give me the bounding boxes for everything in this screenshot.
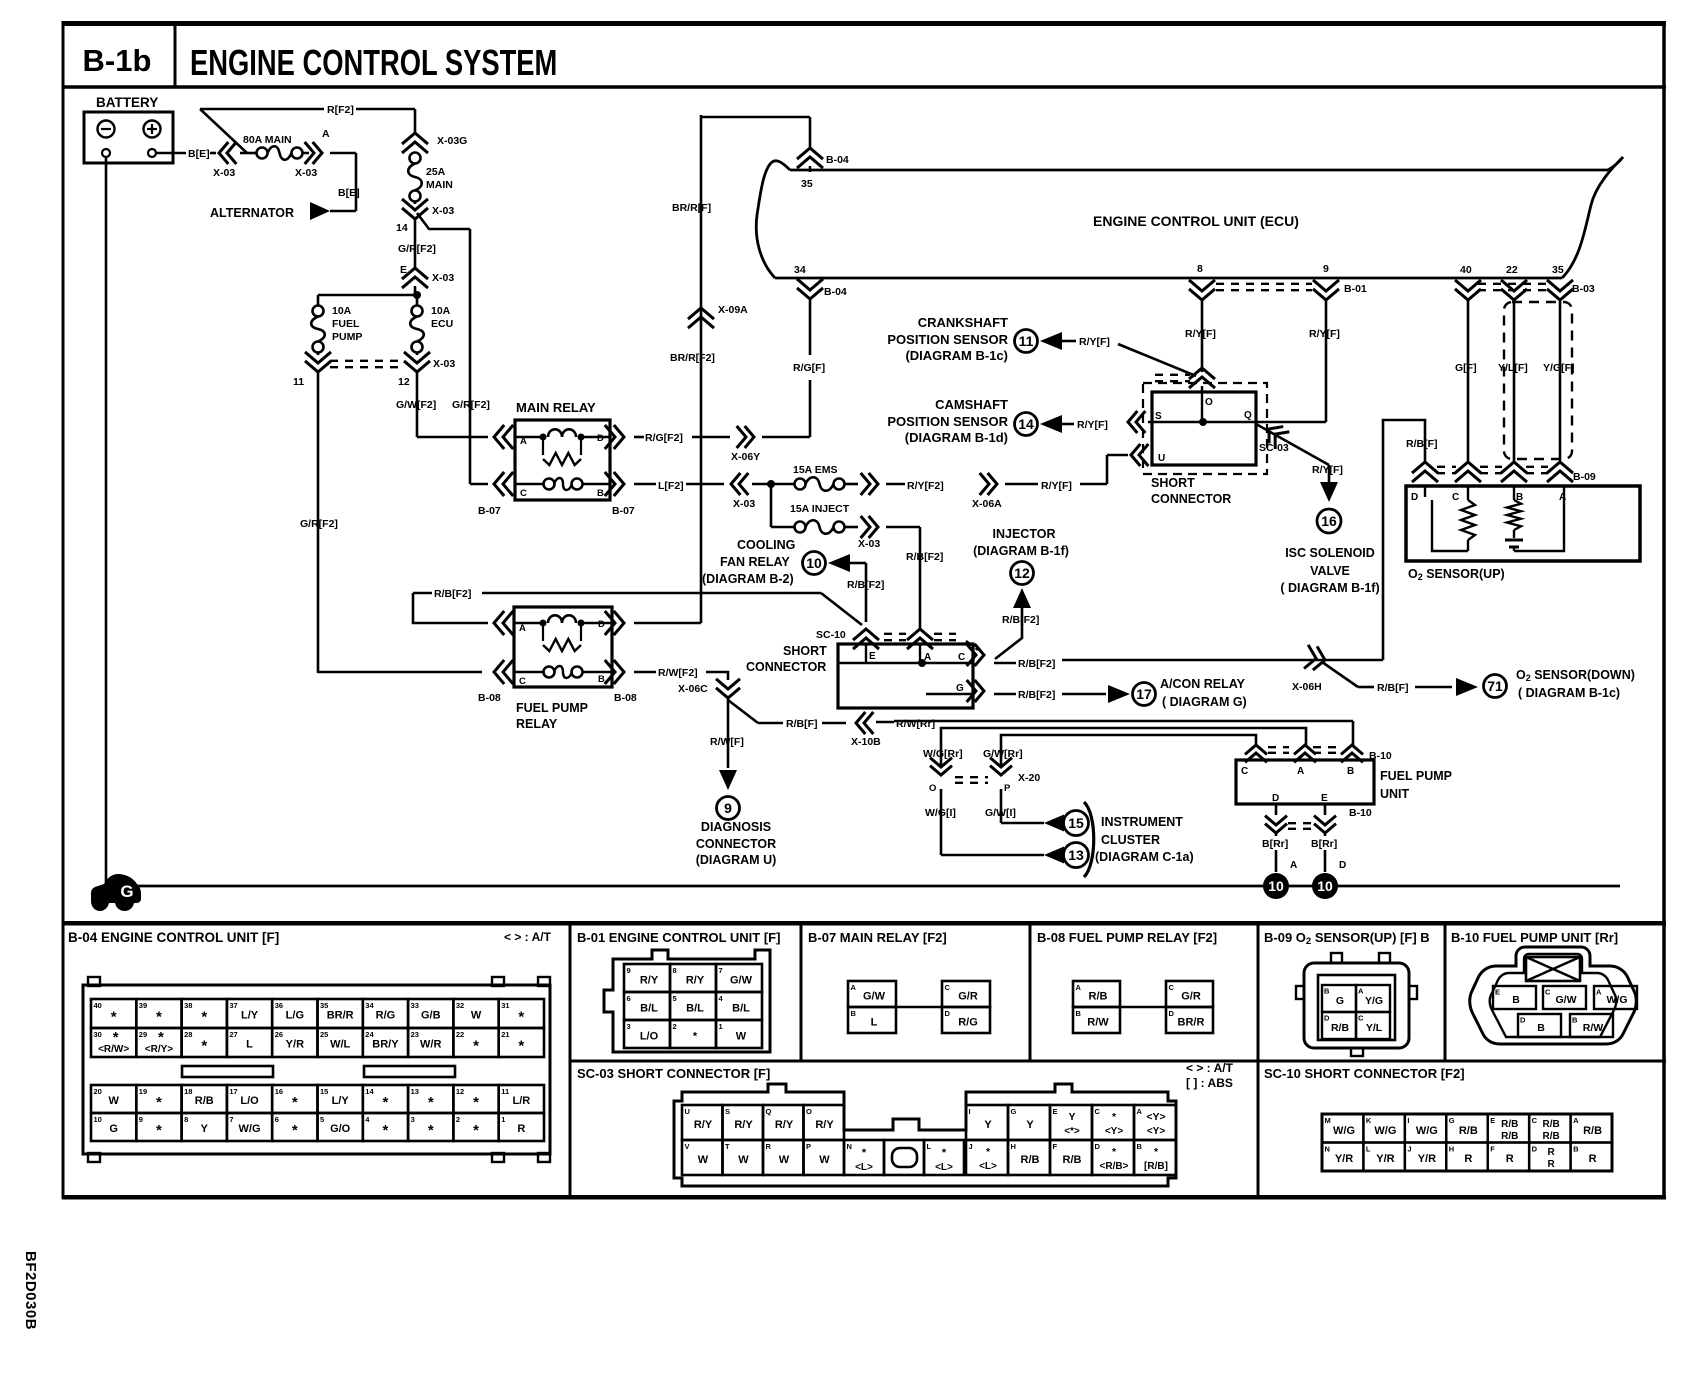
svg-text:37: 37 [229,1001,237,1010]
svg-text:ALTERNATOR: ALTERNATOR [210,206,294,220]
svg-text:F: F [1053,1142,1058,1151]
svg-text:W: W [819,1154,830,1166]
svg-text:R/G: R/G [376,1010,396,1022]
svg-text:*: * [111,1009,117,1026]
svg-text:R/Y: R/Y [640,975,659,987]
svg-text:R/Y: R/Y [775,1119,794,1131]
svg-text:J: J [1407,1145,1411,1154]
svg-text:B: B [1573,1145,1579,1154]
svg-text:Y: Y [1068,1111,1075,1123]
svg-text:R/B: R/B [1543,1119,1560,1130]
svg-text:U: U [1158,453,1165,464]
svg-text:W: W [108,1095,119,1107]
svg-text:A: A [1573,1116,1579,1125]
svg-text:(DIAGRAM B-1c): (DIAGRAM B-1c) [905,348,1008,363]
svg-text:UNIT: UNIT [1380,787,1410,801]
svg-text:T: T [725,1142,730,1151]
svg-text:*: * [383,1122,389,1139]
svg-text:11: 11 [1019,333,1034,349]
svg-text:29: 29 [139,1030,147,1039]
svg-text:14: 14 [365,1087,374,1096]
svg-text:34: 34 [794,264,806,276]
svg-text:POSITION SENSOR: POSITION SENSOR [887,332,1008,347]
svg-text:A: A [1076,983,1082,992]
svg-text:K: K [1366,1116,1372,1125]
svg-text:25: 25 [320,1030,328,1039]
svg-text:RELAY: RELAY [516,717,558,731]
svg-text:W/G: W/G [1607,994,1628,1006]
svg-text:10: 10 [94,1115,102,1124]
svg-text:A: A [1290,860,1297,871]
svg-text:G: G [109,1123,118,1135]
svg-text:INJECTOR: INJECTOR [993,527,1056,541]
svg-text:(DIAGRAM B-1d): (DIAGRAM B-1d) [905,430,1008,445]
svg-text:J: J [969,1142,973,1151]
svg-text:B: B [851,1009,857,1018]
svg-text:Y/G[F]: Y/G[F] [1543,362,1575,374]
svg-text:Y/G: Y/G [1365,995,1383,1007]
svg-text:<L>: <L> [935,1162,953,1173]
svg-text:H: H [1449,1145,1454,1154]
svg-text:CRANKSHAFT: CRANKSHAFT [918,315,1008,330]
svg-text:*: * [693,1031,698,1043]
svg-text:D: D [1169,1009,1175,1018]
svg-text:(DIAGRAM U): (DIAGRAM U) [696,853,777,867]
svg-text:L: L [246,1039,253,1051]
svg-text:B[E]: B[E] [188,148,210,160]
svg-text:<L>: <L> [979,1161,997,1172]
svg-text:Q: Q [1244,410,1252,421]
svg-text:<Y>: <Y> [1147,1126,1166,1137]
svg-text:W/G: W/G [1416,1125,1438,1137]
svg-text:D: D [1339,860,1346,871]
svg-text:22: 22 [456,1030,464,1039]
svg-text:Y/L: Y/L [1366,1022,1383,1034]
svg-text:10: 10 [1317,878,1333,894]
svg-text:R/Y[F]: R/Y[F] [1041,480,1072,492]
svg-text:R/B[F2]: R/B[F2] [1018,689,1055,701]
svg-text:W: W [779,1154,790,1166]
svg-text:F: F [1490,1145,1495,1154]
svg-text:R/B: R/B [1089,991,1108,1003]
svg-text:P: P [1004,783,1011,794]
svg-text:R/B[F]: R/B[F] [786,718,818,730]
svg-text:B-07: B-07 [478,505,501,517]
svg-text:X-03: X-03 [213,167,235,179]
svg-text:10: 10 [1268,878,1284,894]
svg-text:R/B[F2]: R/B[F2] [1002,614,1039,626]
svg-text:G[F]: G[F] [1455,362,1477,374]
svg-text:VALVE: VALVE [1310,564,1350,578]
svg-text:R/G: R/G [958,1017,978,1029]
svg-text:A: A [1297,766,1304,777]
svg-text:R/Y: R/Y [694,1119,713,1131]
svg-text:*: * [473,1122,479,1139]
svg-text:G/R: G/R [1181,991,1201,1003]
svg-text:CLUSTER: CLUSTER [1101,833,1160,847]
svg-text:23: 23 [411,1030,419,1039]
svg-text:R/G[F]: R/G[F] [793,362,825,374]
svg-text:L/Y: L/Y [332,1095,350,1107]
svg-text:X-03G: X-03G [437,135,467,147]
svg-text:8: 8 [1197,263,1203,275]
svg-text:13: 13 [1068,847,1084,863]
svg-text:BR/R: BR/R [327,1010,354,1022]
svg-text:38: 38 [184,1001,192,1010]
svg-text:6: 6 [275,1115,279,1124]
svg-text:R/B: R/B [1063,1154,1082,1166]
svg-text:30: 30 [94,1030,102,1039]
svg-text:7: 7 [229,1115,233,1124]
svg-text:L[F2]: L[F2] [658,480,684,492]
svg-text:SC-03 SHORT CONNECTOR [F]: SC-03 SHORT CONNECTOR [F] [577,1066,770,1081]
svg-text:R/G[F2]: R/G[F2] [645,432,683,444]
svg-text:*: * [156,1094,162,1111]
svg-text:B-04: B-04 [826,154,849,166]
svg-text:B-04: B-04 [824,286,847,298]
svg-text:W/G[I]: W/G[I] [925,807,956,819]
svg-text:B: B [1537,1022,1545,1034]
svg-text:X-06Y: X-06Y [731,451,760,463]
svg-text:B/L: B/L [686,1003,704,1015]
svg-text:R/B[F2]: R/B[F2] [847,579,884,591]
svg-text:14: 14 [1018,416,1034,432]
svg-text:G/O: G/O [330,1123,351,1135]
svg-text:L: L [1366,1145,1371,1154]
svg-text:B: B [597,488,604,499]
svg-text:36: 36 [275,1001,283,1010]
svg-text:X-03: X-03 [432,272,454,284]
svg-text:X-03: X-03 [433,358,455,370]
svg-text:B[Rr]: B[Rr] [1262,838,1288,850]
svg-text:E: E [1490,1116,1495,1125]
svg-text:L: L [871,1017,878,1029]
svg-text:S: S [725,1107,730,1116]
svg-text:B[E]: B[E] [338,187,360,199]
svg-text:20: 20 [94,1087,102,1096]
svg-text:ECU: ECU [431,318,453,330]
svg-text:1: 1 [719,1022,723,1031]
svg-text:R/Y[F]: R/Y[F] [1309,328,1340,340]
svg-text:U: U [685,1107,690,1116]
svg-text:W/G: W/G [239,1123,261,1135]
svg-text:B-07 MAIN RELAY [F2]: B-07 MAIN RELAY [F2] [808,930,947,945]
svg-text:FUEL PUMP: FUEL PUMP [516,701,588,715]
svg-text:10A: 10A [332,305,352,317]
svg-text:O: O [929,783,936,794]
svg-text:R/B: R/B [1583,1125,1602,1137]
svg-text:G: G [1449,1116,1455,1125]
svg-text:9: 9 [724,800,732,816]
svg-text:R/B[F]: R/B[F] [1377,682,1409,694]
svg-text:R[F2]: R[F2] [327,104,354,116]
svg-text:M: M [1325,1116,1331,1125]
svg-text:B-07: B-07 [612,505,635,517]
svg-text:B-10: B-10 [1349,807,1372,819]
svg-text:B-10: B-10 [1369,750,1392,762]
svg-text:12: 12 [456,1087,464,1096]
svg-text:X-03: X-03 [733,498,755,510]
svg-text:X-03: X-03 [432,205,454,217]
svg-text:C: C [1545,988,1551,997]
svg-text:H: H [1011,1142,1016,1151]
svg-text:R/Y: R/Y [815,1119,834,1131]
svg-text:( DIAGRAM B-1f): ( DIAGRAM B-1f) [1280,581,1379,595]
svg-text:SHORT: SHORT [1151,476,1195,490]
svg-text:*: * [473,1094,479,1111]
svg-text:ENGINE CONTROL SYSTEM: ENGINE CONTROL SYSTEM [190,42,557,83]
svg-text:C: C [1095,1107,1101,1116]
svg-text:X-09A: X-09A [718,304,748,316]
svg-text:R/Y[F]: R/Y[F] [1079,336,1110,348]
svg-text:C: C [1358,1014,1364,1023]
svg-text:< > : A/T: < > : A/T [504,930,552,944]
svg-text:D: D [1532,1145,1538,1154]
svg-text:R/B: R/B [1501,1131,1518,1142]
svg-text:ISC SOLENOID: ISC SOLENOID [1285,546,1375,560]
svg-text:*: * [428,1094,434,1111]
svg-text:B[Rr]: B[Rr] [1311,838,1337,850]
svg-text:G: G [1011,1107,1017,1116]
svg-text:D: D [597,433,604,444]
svg-text:R: R [1548,1159,1556,1170]
svg-text:W/R: W/R [420,1039,441,1051]
svg-text:<L>: <L> [855,1162,873,1173]
svg-text:B: B [1572,1016,1578,1025]
svg-text:C: C [1169,983,1175,992]
svg-text:G: G [120,882,133,901]
svg-text:MAIN RELAY: MAIN RELAY [516,400,596,415]
svg-text:32: 32 [456,1001,464,1010]
svg-text:26: 26 [275,1030,283,1039]
svg-text:R: R [1548,1147,1556,1158]
svg-text:C: C [1452,492,1459,503]
svg-text:27: 27 [229,1030,237,1039]
svg-text:9: 9 [627,966,631,975]
svg-text:25A: 25A [426,166,446,178]
svg-text:POSITION SENSOR: POSITION SENSOR [887,414,1008,429]
svg-text:(DIAGRAM C-1a): (DIAGRAM C-1a) [1095,850,1194,864]
svg-text:P: P [806,1142,811,1151]
svg-text:B/L: B/L [640,1003,658,1015]
svg-text:X-06C: X-06C [678,683,708,695]
svg-text:Y: Y [984,1119,992,1131]
svg-text:E: E [1495,988,1500,997]
svg-text:BR/R[F2]: BR/R[F2] [670,352,715,364]
svg-text:Y/R: Y/R [1376,1153,1394,1165]
svg-text:10: 10 [806,555,822,571]
svg-text:11: 11 [501,1087,509,1096]
svg-text:B-01 ENGINE CONTROL UNIT [F]: B-01 ENGINE CONTROL UNIT [F] [577,930,780,945]
svg-text:B: B [1324,987,1330,996]
svg-text:D: D [1272,793,1279,804]
svg-text:L/Y: L/Y [241,1010,259,1022]
svg-text:71: 71 [1487,678,1503,694]
svg-text:*: * [292,1094,298,1111]
svg-text:40: 40 [1460,264,1472,276]
svg-text:R/B: R/B [1501,1119,1518,1130]
svg-text:9: 9 [1323,263,1329,275]
svg-text:R/Y[F]: R/Y[F] [1185,328,1216,340]
svg-text:*: * [201,1009,207,1026]
svg-text:10A: 10A [431,305,451,317]
svg-text:R/W: R/W [1087,1017,1109,1029]
svg-text:R/B: R/B [195,1095,214,1107]
svg-text:15A INJECT: 15A INJECT [790,503,850,515]
svg-text:A: A [1358,987,1364,996]
svg-text:G: G [956,683,964,694]
svg-text:*: * [862,1147,867,1159]
svg-text:W: W [471,1010,482,1022]
svg-text:B: B [1137,1142,1143,1151]
svg-text:A/CON RELAY: A/CON RELAY [1160,677,1246,691]
svg-text:33: 33 [411,1001,419,1010]
svg-text:35: 35 [801,178,813,190]
svg-text:V: V [685,1142,690,1151]
svg-text:B-03: B-03 [1572,283,1595,295]
svg-text:SHORT: SHORT [783,644,827,658]
svg-text:B-09: B-09 [1573,471,1596,483]
svg-text:C: C [1532,1116,1538,1125]
svg-text:X-20: X-20 [1018,772,1040,784]
svg-text:G/W: G/W [730,975,753,987]
svg-text:17: 17 [229,1087,237,1096]
svg-text:W/G: W/G [1333,1125,1355,1137]
svg-text:D: D [1324,1014,1330,1023]
svg-text:O2 SENSOR(UP): O2 SENSOR(UP) [1408,567,1505,582]
svg-text:FUEL PUMP: FUEL PUMP [1380,769,1452,783]
svg-text:8: 8 [673,966,677,975]
svg-text:34: 34 [365,1001,374,1010]
svg-text:C: C [958,652,965,663]
svg-text:5: 5 [320,1115,324,1124]
svg-text:B-08 FUEL PUMP RELAY [F2]: B-08 FUEL PUMP RELAY [F2] [1037,930,1217,945]
svg-text:CONNECTOR: CONNECTOR [746,660,826,674]
svg-text:S: S [1155,411,1162,422]
svg-text:80A MAIN: 80A MAIN [243,134,292,146]
svg-text:R/Y[F]: R/Y[F] [1077,419,1108,431]
svg-text:FAN RELAY: FAN RELAY [720,555,790,569]
svg-text:19: 19 [139,1087,147,1096]
svg-text:BATTERY: BATTERY [96,95,158,110]
svg-text:D: D [1095,1142,1101,1151]
svg-text:L/O: L/O [240,1095,259,1107]
svg-text:18: 18 [184,1087,192,1096]
svg-text:G/W[F2]: G/W[F2] [396,399,436,411]
svg-text:R/W: R/W [1583,1022,1604,1034]
svg-text:G/R[F2]: G/R[F2] [452,399,490,411]
svg-text:X-06A: X-06A [972,498,1002,510]
svg-text:R/W[F2]: R/W[F2] [658,667,698,679]
svg-text:(DIAGRAM B-2): (DIAGRAM B-2) [702,572,794,586]
svg-text:14: 14 [396,222,408,234]
svg-text:<Y>: <Y> [1146,1111,1165,1123]
svg-text:3: 3 [627,1022,631,1031]
svg-text:*: * [201,1038,207,1055]
svg-text:<R/Y>: <R/Y> [145,1044,174,1055]
svg-text:B-09 O2 SENSOR(UP) [F] B: B-09 O2 SENSOR(UP) [F] B [1264,930,1430,947]
svg-text:*: * [383,1094,389,1111]
svg-text:G/R[F2]: G/R[F2] [398,243,436,255]
svg-text:D: D [1520,1016,1526,1025]
svg-text:9: 9 [139,1115,143,1124]
svg-text:E: E [1321,793,1328,804]
svg-text:CONNECTOR: CONNECTOR [1151,492,1231,506]
svg-text:< > : A/T: < > : A/T [1186,1061,1234,1075]
svg-text:Y: Y [1026,1119,1034,1131]
svg-text:R/Y: R/Y [686,975,705,987]
svg-text:W/L: W/L [330,1039,350,1051]
svg-text:MAIN: MAIN [426,179,453,191]
svg-text:40: 40 [94,1001,102,1010]
svg-text:G/R[F2]: G/R[F2] [300,518,338,530]
svg-text:COOLING: COOLING [737,538,795,552]
svg-text:31: 31 [501,1001,509,1010]
svg-text:21: 21 [501,1030,509,1039]
svg-text:*: * [156,1122,162,1139]
svg-text:7: 7 [719,966,723,975]
svg-text:C: C [1241,766,1248,777]
svg-text:B-1b: B-1b [83,43,152,78]
svg-text:16: 16 [275,1087,283,1096]
svg-text:L/R: L/R [512,1095,530,1107]
svg-text:B: B [1512,994,1520,1006]
svg-text:B-01: B-01 [1344,283,1367,295]
svg-text:Y/R: Y/R [1335,1153,1353,1165]
svg-text:FUEL: FUEL [332,318,360,330]
svg-text:*: * [292,1122,298,1139]
svg-text:X-06H: X-06H [1292,681,1322,693]
svg-text:2: 2 [456,1115,460,1124]
svg-text:L/O: L/O [640,1031,659,1043]
svg-text:W/G: W/G [1374,1125,1396,1137]
svg-text:R/B: R/B [1459,1125,1478,1137]
svg-text:R/B[F2]: R/B[F2] [1018,658,1055,670]
svg-text:R: R [1464,1153,1472,1165]
svg-text:12: 12 [1014,565,1030,581]
svg-text:<R/W>: <R/W> [98,1044,129,1055]
svg-text:R/B: R/B [1543,1131,1560,1142]
svg-text:*: * [942,1147,947,1159]
svg-text:<*>: <*> [1064,1126,1080,1137]
svg-text:C: C [520,488,527,499]
svg-text:I: I [969,1107,971,1116]
svg-text:E: E [869,651,876,662]
svg-text:X-03: X-03 [295,167,317,179]
svg-text:W: W [736,1031,747,1043]
svg-text:W: W [698,1154,709,1166]
svg-text:A: A [1596,988,1602,997]
svg-text:R: R [766,1142,772,1151]
svg-text:C: C [519,676,526,687]
svg-text:I: I [1407,1116,1409,1125]
svg-text:(DIAGRAM B-1f): (DIAGRAM B-1f) [973,544,1069,558]
svg-text:<R/B>: <R/B> [1100,1161,1129,1172]
svg-text:28: 28 [184,1030,192,1039]
svg-text:22: 22 [1506,264,1518,276]
svg-text:CONNECTOR: CONNECTOR [696,837,776,851]
svg-text:R/Y[F]: R/Y[F] [1312,464,1343,476]
svg-text:( DIAGRAM G): ( DIAGRAM G) [1162,695,1247,709]
svg-text:3: 3 [411,1115,415,1124]
svg-text:R/W[F]: R/W[F] [710,736,744,748]
svg-text:B: B [1347,766,1354,777]
svg-text:*: * [428,1122,434,1139]
svg-text:X-10B: X-10B [851,736,881,748]
svg-text:A: A [1137,1107,1143,1116]
svg-text:ENGINE CONTROL UNIT (ECU): ENGINE CONTROL UNIT (ECU) [1093,213,1299,229]
svg-text:R/Y[F2]: R/Y[F2] [907,480,944,492]
